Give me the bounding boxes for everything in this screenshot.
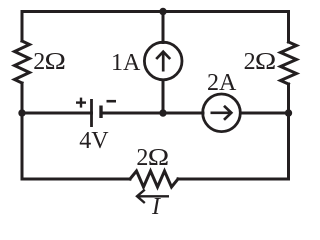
svg-text:Ω: Ω — [255, 47, 276, 74]
wire right upper (top-right corner down to right resistor) — [287, 12, 290, 43]
battery polarity mark + — [76, 98, 86, 108]
wire bottom right segment — [178, 178, 289, 181]
battery V1 4V: short plate (−) — [99, 106, 102, 119]
current source U2 arrow (points right) — [211, 106, 232, 120]
wire middle vertical upper (top node to 1A source) — [162, 12, 165, 43]
wire middle center (battery - plate to 2A source) — [101, 112, 203, 115]
wire left upper (top-left corner down to left resistor) — [21, 12, 24, 42]
svg-text:2: 2 — [136, 145, 148, 171]
junction node left middle — [18, 109, 25, 116]
svg-text:1A: 1A — [111, 50, 141, 76]
wire top (node A: top-left corner to top-right corner) — [22, 10, 289, 13]
resistor R2 2Ω (right branch) — [281, 42, 297, 84]
resistor R3 2Ω (bottom branch) — [130, 171, 178, 187]
wire right lower (right resistor down to bottom-right corner) — [287, 84, 290, 179]
svg-text:2: 2 — [33, 49, 45, 75]
svg-text:Ω: Ω — [148, 143, 169, 170]
wire middle left (left node to battery + plate) — [22, 112, 92, 115]
battery polarity mark − — [107, 100, 117, 103]
junction node right middle — [285, 109, 292, 116]
current arrow I (points left, under bottom resistor) — [137, 190, 169, 203]
svg-text:Ω: Ω — [45, 47, 66, 74]
svg-text:4V: 4V — [79, 128, 109, 154]
current source U2 2A (circle) — [203, 94, 241, 132]
junction node center middle — [159, 109, 166, 116]
wire middle right (2A source to right node) — [241, 112, 289, 115]
wire left lower (left resistor down to bottom-left corner) — [21, 83, 24, 179]
wire bottom left segment — [22, 178, 130, 181]
current source U1 1A (circle) — [144, 42, 182, 80]
svg-text:2: 2 — [244, 49, 256, 75]
current source U1 arrow (points up) — [156, 52, 170, 72]
resistor R1 2Ω (left branch) — [15, 41, 30, 83]
svg-text:2A: 2A — [207, 70, 237, 96]
svg-text:I: I — [151, 194, 161, 220]
junction node at top (middle vertical meets top wire) — [159, 8, 166, 15]
wire middle vertical lower (1A source to middle node) — [162, 80, 165, 113]
battery V1 4V: long plate (+) — [90, 99, 93, 127]
